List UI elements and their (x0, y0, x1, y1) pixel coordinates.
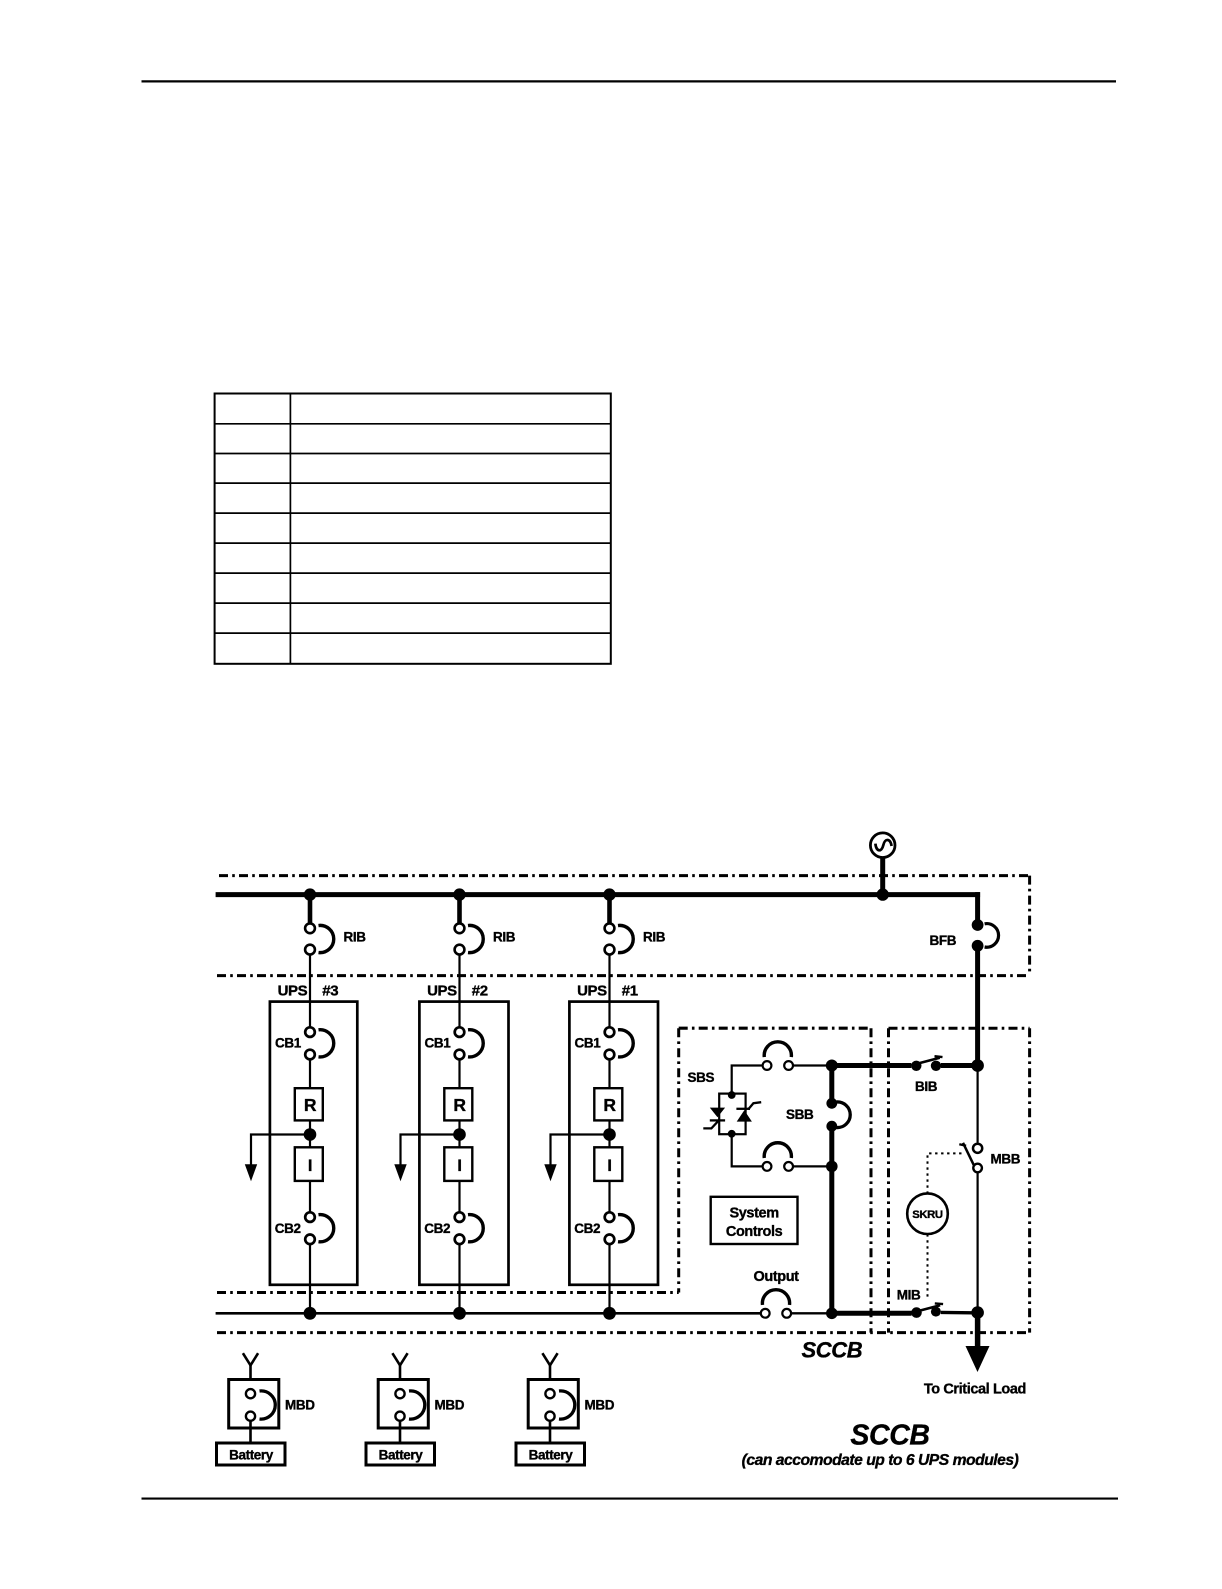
inverter I (UPS #1) (594, 1147, 622, 1181)
cabinet boundary: SBS section left edge (677, 1028, 680, 1292)
node: output bus tap (UPS #2) (453, 1307, 466, 1320)
wire: interlock dotted MBB blade to SKRU (928, 1153, 962, 1193)
svg-text:BIB: BIB (915, 1079, 938, 1094)
cabinet boundary: bypass section top edge (889, 1027, 1030, 1030)
thyristor: right SCR (up) (736, 1102, 761, 1121)
inverter I (UPS #3) (295, 1147, 323, 1181)
breaker CB2 (UPS #1) (605, 1212, 634, 1244)
UPS module #1 enclosure box (569, 1002, 658, 1285)
inverter I (UPS #2) (444, 1147, 472, 1181)
wire: RIB to CB1 (UPS #1) (608, 954, 610, 1028)
cabinet boundary: input section bottom / UPS row top (217, 974, 1030, 977)
wire: CB1 to rectifier (UPS #1) (608, 1059, 610, 1088)
cabinet boundary: SCCB bottom (217, 1331, 1030, 1334)
thyristor: left SCR (down) (703, 1108, 725, 1129)
svg-text:(can accomodate up to 6 UPS mo: (can accomodate up to 6 UPS modules) (742, 1452, 1019, 1469)
svg-text:BFB: BFB (930, 933, 957, 948)
wire: bus stub to RIB #2 (457, 895, 462, 924)
wire: inverter to CB2 (UPS #2) (458, 1181, 460, 1213)
node: DC link junction (UPS #1) (603, 1128, 616, 1141)
svg-text:R: R (304, 1095, 317, 1115)
arrow: to battery MBD (UPS #3) (245, 1164, 257, 1181)
node: SBS top junction (826, 1060, 838, 1072)
breaker MBD (UPS #2) (378, 1380, 428, 1429)
breaker RIB (UPS #3) (305, 923, 334, 954)
arrow: to battery MBD (UPS #1) (544, 1164, 556, 1181)
breaker CB1 (UPS #3) (305, 1027, 334, 1059)
wire: battery tap fork (UPS #1) (542, 1353, 557, 1365)
wire: DC link tap to battery arrow (UPS #2) (401, 1135, 460, 1166)
AC source S (870, 833, 895, 858)
breaker: SBS top isolation (763, 1042, 793, 1070)
svg-text:Battery: Battery (229, 1448, 274, 1463)
breaker RIB (UPS #1) (605, 923, 634, 954)
wire: MBD to battery (UPS #1) (549, 1421, 552, 1443)
node: output bus tap (UPS #3) (304, 1307, 317, 1320)
svg-text:R: R (603, 1095, 616, 1115)
svg-text:Output: Output (754, 1269, 800, 1285)
wire: rectifier to inverter (UPS #2) (458, 1120, 460, 1147)
wire: source stub to input bus (880, 857, 885, 897)
svg-text:#2: #2 (472, 983, 488, 1000)
breaker CB2 (UPS #2) (455, 1212, 484, 1244)
wire: SBB to output junction (829, 1131, 834, 1314)
wire: battery tap fork (UPS #3) (243, 1353, 258, 1365)
svg-text:Battery: Battery (379, 1448, 424, 1463)
cabinet boundary: SBS section right edge (870, 1028, 873, 1332)
svg-text:Controls: Controls (726, 1224, 783, 1240)
svg-text:To Critical Load: To Critical Load (924, 1382, 1026, 1398)
wire: rectifier to inverter (UPS #3) (309, 1120, 311, 1147)
breaker: SBS bottom isolation (763, 1143, 793, 1171)
cabinet boundary: bypass section right edge (1028, 1028, 1031, 1332)
page bottom rule (142, 1498, 1119, 1500)
breaker SBB (826, 1098, 850, 1132)
node: SBS bottom junction (826, 1161, 838, 1173)
wire: SBS bottom breaker to junction (793, 1165, 832, 1167)
svg-text:MBB: MBB (991, 1152, 1021, 1167)
arrow: to critical load (966, 1346, 990, 1372)
node: input bus tap UPS #2 (453, 888, 465, 900)
wire: SBS top breaker to junction (793, 1064, 832, 1066)
System Controls box (711, 1197, 798, 1244)
rectifier R (UPS #3) (295, 1088, 323, 1120)
wire: bus corner down to BFB (975, 892, 980, 920)
svg-text:UPS: UPS (278, 983, 308, 1000)
UPS module #3 enclosure box (270, 1002, 357, 1285)
rectifier R (UPS #2) (444, 1088, 472, 1120)
node: DC link junction (UPS #2) (453, 1128, 466, 1141)
wire: battery tap fork (UPS #2) (392, 1353, 407, 1365)
wire: SBS junction to BIB (832, 1063, 912, 1068)
svg-text:I: I (457, 1157, 461, 1175)
svg-text:UPS: UPS (577, 983, 607, 1000)
wire: output bus (left of Output breaker) (216, 1312, 761, 1315)
wire: RIB to CB1 (UPS #2) (458, 954, 460, 1028)
page top rule (142, 80, 1117, 82)
wire: output bus thick segment to MIB (832, 1311, 912, 1316)
cabinet boundary: input section right edge (1028, 876, 1031, 976)
relay SKRU (907, 1193, 948, 1234)
svg-text:CB2: CB2 (275, 1221, 301, 1236)
svg-text:SBB: SBB (786, 1107, 814, 1122)
node: BIB junction (971, 1059, 984, 1072)
svg-text:RIB: RIB (344, 930, 367, 945)
wire: CB1 to rectifier (UPS #3) (309, 1059, 311, 1088)
svg-text:SCCB: SCCB (850, 1420, 929, 1452)
breaker MBD (UPS #3) (229, 1380, 279, 1429)
svg-text:#1: #1 (622, 983, 638, 1000)
cabinet boundary: UPS row bottom (217, 1291, 679, 1294)
breaker CB1 (UPS #1) (605, 1027, 634, 1059)
node: SBB/output junction (826, 1308, 838, 1320)
svg-text:CB1: CB1 (575, 1036, 602, 1051)
wire: CB1 to rectifier (UPS #2) (458, 1059, 460, 1088)
cabinet boundary: input section top (219, 874, 1030, 877)
wire: MIB to load junction (941, 1311, 972, 1315)
wire: Output breaker to SBB junction (791, 1312, 832, 1314)
switch BIB (911, 1056, 942, 1071)
wire: CB2 to output bus (UPS #1) (608, 1244, 610, 1314)
breaker BFB (972, 919, 999, 952)
svg-text:#3: #3 (322, 983, 338, 1000)
wire: DC link tap to battery arrow (UPS #3) (251, 1135, 310, 1166)
wire: CB2 to output bus (UPS #2) (458, 1244, 460, 1314)
battery (UPS #1) (516, 1443, 585, 1465)
node: static switch bottom (728, 1130, 736, 1138)
wire: MBD to battery (UPS #3) (249, 1421, 252, 1443)
svg-text:Battery: Battery (529, 1448, 574, 1463)
breaker CB1 (UPS #2) (455, 1027, 484, 1059)
node: input bus tap UPS #1 (603, 888, 615, 900)
svg-text:SCCB: SCCB (802, 1338, 863, 1363)
svg-text:CB1: CB1 (425, 1036, 452, 1051)
wire: BFB to BIB junction (975, 951, 980, 1066)
wire: bus stub to RIB #3 (308, 895, 313, 924)
svg-text:CB2: CB2 (574, 1221, 600, 1236)
wire: bus stub to RIB #1 (607, 895, 612, 924)
svg-text:UPS: UPS (427, 983, 457, 1000)
breaker CB2 (UPS #3) (305, 1212, 334, 1244)
wire: rectifier to inverter (UPS #1) (608, 1120, 610, 1147)
wire: to critical load (975, 1313, 981, 1348)
wire: CB2 to output bus (UPS #3) (309, 1244, 311, 1314)
wire: BIB to vertical conductor (941, 1063, 978, 1068)
arrow: to battery MBD (UPS #2) (394, 1164, 406, 1181)
node: DC link junction (UPS #3) (304, 1128, 317, 1141)
node: load junction (971, 1306, 984, 1319)
node: source connection on input bus (877, 888, 889, 900)
wire: BIB junction down to MBB (976, 1066, 978, 1143)
wire: SBS top-left corner (732, 1066, 763, 1094)
svg-text:MBD: MBD (285, 1397, 315, 1412)
UPS module #2 enclosure box (419, 1002, 508, 1285)
svg-text:CB2: CB2 (424, 1221, 450, 1236)
svg-text:RIB: RIB (643, 930, 666, 945)
wire: inverter to CB2 (UPS #1) (608, 1181, 610, 1213)
breaker MBD (UPS #1) (528, 1380, 578, 1429)
cabinet boundary: bypass section left edge (887, 1028, 890, 1332)
battery (UPS #2) (366, 1443, 435, 1465)
battery (UPS #3) (217, 1443, 286, 1465)
wire: DC link tap to battery arrow (UPS #1) (551, 1135, 610, 1166)
switch MBB (959, 1143, 982, 1172)
svg-text:MIB: MIB (897, 1288, 921, 1303)
wire: MBB down to MIB junction (976, 1173, 978, 1314)
svg-text:I: I (308, 1157, 312, 1175)
wire: inverter to CB2 (UPS #3) (309, 1181, 311, 1213)
switch MIB (911, 1303, 943, 1317)
svg-text:I: I (607, 1157, 611, 1175)
wire: interlock dotted SKRU to MIB (927, 1234, 929, 1299)
breaker Output (761, 1290, 791, 1318)
rectifier R (UPS #1) (594, 1088, 622, 1120)
svg-text:MBD: MBD (585, 1397, 615, 1412)
static switch SCR pair box (719, 1094, 745, 1135)
wire: SBS bottom-left corner (732, 1134, 763, 1166)
node: output bus tap (UPS #1) (603, 1307, 616, 1320)
cabinet boundary: SBS section top edge (679, 1027, 871, 1030)
svg-text:CB1: CB1 (275, 1036, 302, 1051)
svg-text:MBD: MBD (435, 1397, 465, 1412)
wire: RIB to CB1 (UPS #3) (309, 954, 311, 1028)
node: static switch top (728, 1091, 736, 1099)
wire: main input bus (216, 892, 981, 897)
svg-text:RIB: RIB (493, 930, 516, 945)
node: input bus tap UPS #3 (304, 888, 316, 900)
wire: SBS junction down from top (829, 1066, 834, 1099)
breaker RIB (UPS #2) (455, 923, 484, 954)
svg-text:System: System (730, 1206, 779, 1222)
svg-text:SBS: SBS (688, 1070, 715, 1085)
svg-text:SKRU: SKRU (912, 1209, 943, 1221)
wire: MBD to battery (UPS #2) (399, 1421, 402, 1443)
table (215, 394, 611, 664)
svg-text:R: R (453, 1095, 466, 1115)
